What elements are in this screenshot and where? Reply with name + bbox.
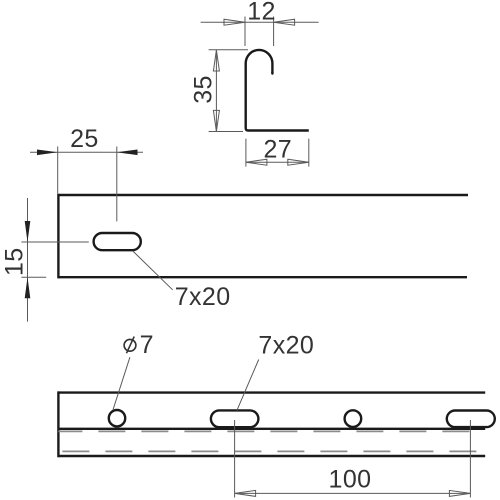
hole slot 2 <box>447 411 495 428</box>
hidden dashed line upper <box>58 430 485 432</box>
svg-text:100: 100 <box>329 466 372 494</box>
hidden dashed line lower <box>58 450 485 452</box>
hole slot 1 <box>211 410 259 427</box>
svg-text:7: 7 <box>140 331 154 359</box>
leader line circle 1 <box>113 357 130 410</box>
dimension 12 extension line right <box>273 17 275 47</box>
rail plan view middle edge <box>58 428 485 430</box>
svg-text:7x20: 7x20 <box>258 332 314 360</box>
dimension 27 open arrow right <box>288 159 309 165</box>
dimension 25 line <box>30 151 143 153</box>
diameter symbol slash <box>127 337 135 354</box>
dimension 35 open arrow up <box>213 50 219 71</box>
profile J cross-section outline <box>246 50 309 131</box>
dimension 35 line <box>215 50 217 131</box>
dimension 35 extension line top <box>209 49 248 51</box>
dimension 100 line <box>235 492 471 494</box>
dimension 35 extension line bottom <box>209 131 243 133</box>
dimension 12 open arrow left <box>224 19 245 25</box>
dimension 27 extension line right <box>308 139 310 167</box>
dimension 25 extension line right <box>116 147 118 222</box>
dimension 15 filled arrow down <box>25 221 31 242</box>
rail side view bottom edge <box>58 276 467 278</box>
slot 7x20 in side view <box>94 233 141 250</box>
dimension 25 filled arrow left <box>37 150 58 156</box>
dimension 100 extension line right <box>469 420 471 498</box>
svg-text:27: 27 <box>263 135 292 163</box>
dimension 27 line <box>246 161 309 163</box>
svg-text:7x20: 7x20 <box>175 283 231 311</box>
profile hook tip rounded end <box>271 73 273 74</box>
dimension 25 extension line left <box>57 147 59 194</box>
leader line slot 7x20 side view <box>133 251 173 290</box>
dimension 27 extension line left <box>245 139 247 167</box>
hole circle 2 <box>345 410 362 427</box>
dimension 100 open arrow right <box>449 490 470 496</box>
svg-text:35: 35 <box>189 75 217 104</box>
svg-text:15: 15 <box>1 247 29 276</box>
rail plan view left edge <box>57 391 59 457</box>
dimension 100 extension line left <box>234 420 236 498</box>
dimension 100 open arrow left <box>235 490 256 496</box>
rail plan view top edge <box>58 391 485 393</box>
dimension 15 filled arrow up <box>25 277 31 298</box>
dimension 12 line <box>201 21 319 23</box>
rail side view top edge <box>58 194 468 196</box>
leader line slot 1 <box>237 360 259 411</box>
dimension 15 extension line bottom <box>21 276 46 278</box>
dimension 27 open arrow left <box>246 159 267 165</box>
dimension 25 filled arrow right <box>117 150 138 156</box>
dimension 12 extension line left <box>244 17 246 47</box>
dimension 35 open arrow down <box>213 110 219 131</box>
hole circle 1 <box>109 410 125 426</box>
dimension 15 extension line top <box>21 241 88 243</box>
dimension 12 open arrow right <box>274 19 295 25</box>
diameter symbol of label Ø7 <box>124 339 136 351</box>
svg-text:25: 25 <box>70 125 99 153</box>
rail side view left edge <box>57 194 59 279</box>
dimension 15 line <box>27 198 29 322</box>
rail plan view bottom edge <box>58 455 485 457</box>
svg-text:12: 12 <box>247 0 276 26</box>
